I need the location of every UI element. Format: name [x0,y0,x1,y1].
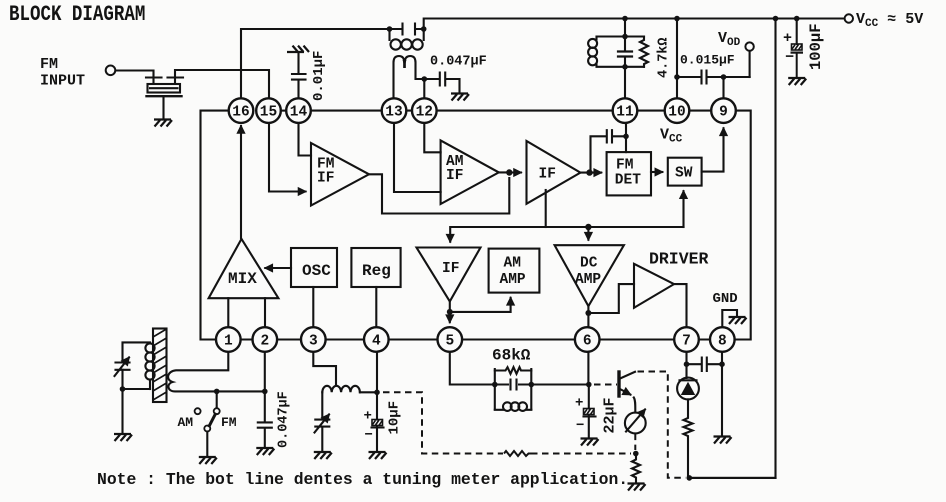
svg-text:0.047μF: 0.047μF [277,391,292,448]
svg-text:VOD: VOD [718,30,741,49]
svg-text:100μF: 100μF [807,23,825,70]
svg-text:DC: DC [580,256,598,272]
svg-text:10μF: 10μF [387,401,403,435]
svg-text:−: − [576,418,584,434]
svg-text:4: 4 [372,334,381,350]
svg-text:−: − [365,428,373,444]
svg-text:13: 13 [385,105,402,121]
svg-text:Reg: Reg [362,262,391,280]
svg-text:IF: IF [446,168,463,184]
svg-text:FM: FM [616,158,633,174]
svg-text:8: 8 [718,334,727,350]
svg-text:2: 2 [260,334,269,350]
svg-text:1: 1 [224,334,233,350]
svg-text:IF: IF [539,167,556,183]
svg-text:VCC ≈ 5V: VCC ≈ 5V [856,11,923,30]
svg-text:VCC: VCC [660,127,683,146]
svg-text:AMP: AMP [500,272,526,288]
svg-text:IF: IF [442,261,459,277]
svg-text:IF: IF [317,171,334,187]
svg-text:0.01μF: 0.01μF [311,51,327,101]
svg-text:−: − [785,49,794,66]
svg-text:68kΩ: 68kΩ [492,347,531,365]
svg-text:Note : The bot line dentes a t: Note : The bot line dentes a tuning mete… [97,470,628,489]
svg-text:FM: FM [40,56,58,73]
svg-text:0.047μF: 0.047μF [430,55,487,70]
svg-text:GND: GND [713,291,738,307]
svg-text:22μF: 22μF [602,397,619,433]
svg-text:+: + [575,396,583,412]
svg-text:15: 15 [260,105,277,121]
svg-text:DET: DET [615,173,641,189]
svg-text:BLOCK DIAGRAM: BLOCK DIAGRAM [9,1,145,26]
svg-text:0.015μF: 0.015μF [680,53,735,68]
svg-text:11: 11 [616,105,634,121]
svg-text:7: 7 [682,334,691,350]
svg-text:MIX: MIX [228,270,257,288]
svg-text:14: 14 [290,105,308,121]
svg-text:+: + [364,409,372,425]
svg-text:9: 9 [719,105,728,121]
svg-text:4.7kΩ: 4.7kΩ [657,37,672,78]
svg-text:3: 3 [309,334,318,350]
svg-text:SW: SW [675,166,693,182]
svg-text:12: 12 [416,105,433,121]
svg-text:6: 6 [583,334,592,350]
svg-text:FM: FM [221,415,237,430]
svg-text:+: + [783,30,792,47]
svg-text:16: 16 [232,105,249,121]
svg-text:AM: AM [178,415,194,430]
svg-text:AM: AM [504,256,521,272]
svg-text:DRIVER: DRIVER [649,250,709,269]
svg-text:INPUT: INPUT [40,73,85,90]
svg-text:AMP: AMP [575,272,601,288]
svg-text:5: 5 [445,334,454,350]
svg-text:OSC: OSC [302,262,331,280]
svg-text:10: 10 [668,105,685,121]
